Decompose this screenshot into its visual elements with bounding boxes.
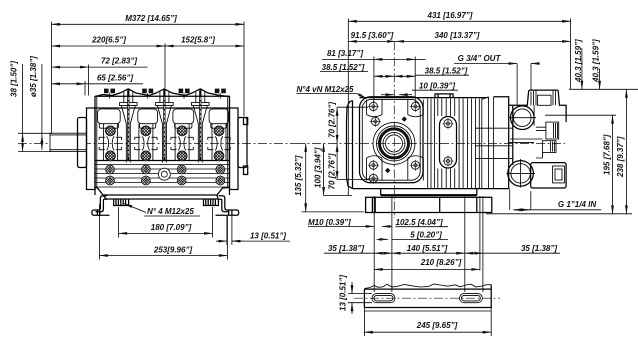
svg-text:ø35 [1.38”]: ø35 [1.38”] — [29, 56, 38, 97]
svg-text:210 [8.26”]: 210 [8.26”] — [420, 258, 462, 267]
svg-text:81 [3.17”]: 81 [3.17”] — [327, 49, 363, 58]
svg-text:5 [0.20”]: 5 [0.20”] — [410, 230, 442, 239]
svg-text:35 [1.38”]: 35 [1.38”] — [328, 244, 364, 253]
svg-text:G 3/4” OUT: G 3/4” OUT — [458, 54, 502, 63]
svg-text:35 [1.38”]: 35 [1.38”] — [521, 244, 557, 253]
svg-text:M10 [0.39”]: M10 [0.39”] — [308, 218, 351, 227]
svg-text:38.5 [1.52”]: 38.5 [1.52”] — [425, 67, 468, 76]
svg-text:N°4 vN M12x25: N°4 vN M12x25 — [297, 85, 355, 94]
svg-text:G 1”1/4 IN: G 1”1/4 IN — [558, 200, 596, 209]
svg-text:245 [9.65”]: 245 [9.65”] — [416, 321, 458, 330]
svg-text:340 [13.37”]: 340 [13.37”] — [435, 31, 480, 40]
svg-text:72 [2.83”]: 72 [2.83”] — [101, 57, 137, 66]
svg-text:140 [5.51”]: 140 [5.51”] — [407, 244, 448, 253]
svg-text:100 [3.94”]: 100 [3.94”] — [314, 147, 323, 188]
svg-text:70 [2.76”]: 70 [2.76”] — [328, 102, 337, 138]
svg-text:102.5 [4.04”]: 102.5 [4.04”] — [396, 218, 443, 227]
svg-text:220[6.5”]: 220[6.5”] — [91, 36, 126, 45]
svg-text:40.3 [1.59”]: 40.3 [1.59”] — [591, 39, 600, 83]
svg-text:253[9.96”]: 253[9.96”] — [153, 245, 193, 254]
svg-text:38.5 [1.52”]: 38.5 [1.52”] — [322, 63, 365, 72]
svg-text:38 [1.50”]: 38 [1.50”] — [10, 61, 19, 97]
svg-text:91.5 [3.60”]: 91.5 [3.60”] — [351, 31, 394, 40]
svg-text:135 [5.32”]: 135 [5.32”] — [294, 155, 303, 196]
svg-text:13 [0.51”]: 13 [0.51”] — [339, 275, 348, 311]
svg-text:N° 4 M12x25: N° 4 M12x25 — [147, 207, 194, 216]
svg-text:238 [9.37”]: 238 [9.37”] — [616, 136, 625, 178]
svg-text:195 [7.68”]: 195 [7.68”] — [602, 134, 611, 175]
svg-text:70 [2.76”]: 70 [2.76”] — [328, 153, 337, 189]
svg-text:65 [2.56”]: 65 [2.56”] — [97, 73, 133, 82]
svg-text:152[5.8”]: 152[5.8”] — [181, 36, 215, 45]
svg-text:180 [7.09”]: 180 [7.09”] — [151, 223, 192, 232]
svg-text:10 [0.39”]: 10 [0.39”] — [419, 81, 455, 90]
svg-text:431 [16.97”]: 431 [16.97”] — [427, 11, 473, 20]
svg-text:13 [0.51”]: 13 [0.51”] — [250, 231, 286, 240]
svg-text:M372 [14.65”]: M372 [14.65”] — [125, 14, 177, 23]
